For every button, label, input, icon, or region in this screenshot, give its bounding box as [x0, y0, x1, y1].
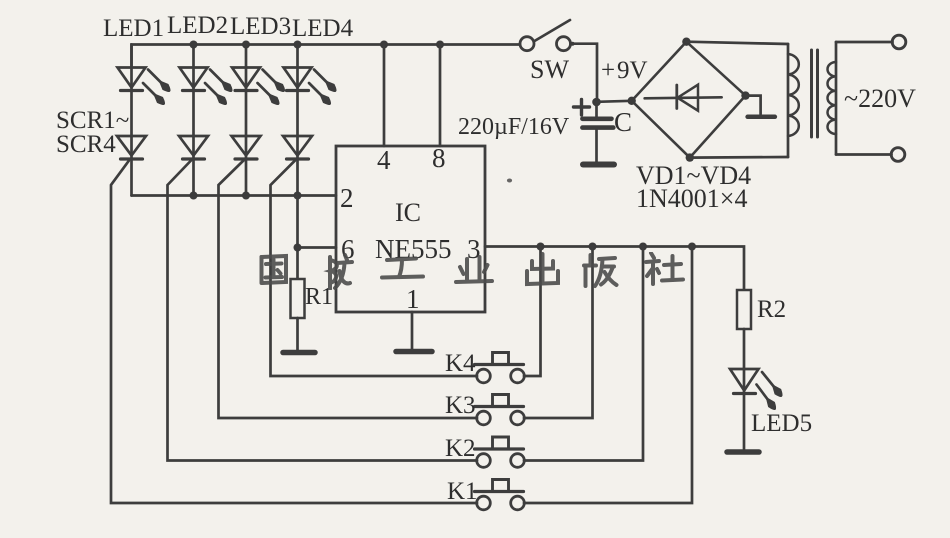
svg-text:LED1: LED1 [103, 15, 164, 42]
node junction pin6 R1 [294, 244, 302, 252]
node junction SCR2 cathode [190, 192, 198, 200]
node junction K2 pin3 [639, 243, 647, 251]
LED LED4 [284, 45, 336, 160]
ground LED5 [727, 449, 759, 455]
wire pin 4 [383, 45, 386, 147]
wire SCR cathode rail to pin 2 [132, 194, 337, 197]
wire K4 to pin3 rail [524, 247, 541, 377]
node junction SCR3 cathode [242, 192, 250, 200]
ground capacitor [583, 162, 614, 168]
watermark char fang [330, 255, 352, 289]
thyristor SCR3 [232, 136, 261, 196]
svg-text:LED5: LED5 [751, 410, 812, 437]
watermark char ban [584, 255, 617, 286]
svg-text:9V: 9V [617, 57, 648, 84]
watermark char gong [382, 259, 423, 278]
watermark char ye [456, 257, 492, 282]
node junction K1 pin3 [688, 243, 696, 251]
wire node to bridge [597, 101, 632, 102]
svg-text:+: + [601, 57, 615, 84]
resistor R1 [291, 196, 305, 351]
ground pin 1 [396, 349, 432, 355]
pushbutton K1 [475, 480, 525, 510]
wire K2 to pin3 rail [524, 247, 643, 461]
thyristor SCR2 [179, 136, 208, 196]
node junction SCR4 cathode [294, 192, 302, 200]
svg-text:K1: K1 [447, 478, 478, 505]
svg-text:1N4001×4: 1N4001×4 [636, 184, 747, 213]
wire SW to node [571, 44, 598, 102]
wire bridge to transformer bottom [690, 156, 788, 159]
LED LED1 [118, 45, 170, 160]
node junction bridge right [741, 91, 749, 99]
speck artifact [507, 179, 512, 183]
ground bridge [748, 115, 775, 120]
capacitor C 220uF [574, 100, 614, 162]
svg-text:R2: R2 [757, 296, 786, 323]
node junction LED4 top [294, 41, 302, 49]
node junction pin8 top [436, 41, 444, 49]
svg-text:SCR4: SCR4 [56, 131, 116, 158]
svg-text:LED2: LED2 [167, 12, 228, 39]
thyristor SCR1 [117, 136, 146, 196]
thyristor SCR4 [283, 136, 312, 196]
node junction LED3 top [242, 41, 250, 49]
pushbutton K2 [475, 437, 525, 467]
wire bridge to transformer top [686, 42, 788, 44]
wire SCR4 gate to K4 [271, 161, 478, 377]
svg-text:2: 2 [340, 183, 354, 213]
svg-text:220µF/16V: 220µF/16V [458, 114, 570, 140]
wire bridge right to ground [746, 96, 761, 114]
node junction SW contact [571, 42, 575, 46]
svg-text:K2: K2 [445, 435, 476, 462]
svg-text:~220V: ~220V [844, 84, 916, 113]
wire top +9V rail [132, 45, 521, 68]
svg-text:4: 4 [377, 145, 391, 175]
wire SCR2 gate to K2 [168, 161, 478, 461]
svg-text:SCR1~: SCR1~ [56, 107, 129, 134]
svg-text:K3: K3 [445, 392, 476, 419]
node junction K4 pin3 [537, 243, 545, 251]
bridge rectifier VD1-VD4 [632, 42, 746, 158]
wire pin 6 [298, 246, 337, 249]
wire SCR3 gate to K3 [219, 161, 478, 419]
LED LED5 [730, 369, 781, 409]
IC NE555 [336, 146, 485, 312]
watermark char guo [262, 256, 287, 283]
LED LED2 [180, 45, 232, 160]
watermark char she [646, 253, 683, 284]
switch SW [520, 20, 571, 51]
LED LED3 [232, 45, 284, 160]
node junction K3 pin3 [589, 243, 597, 251]
svg-text:LED3: LED3 [230, 13, 291, 40]
svg-text:SW: SW [530, 55, 569, 84]
wire pin 1 [411, 312, 414, 349]
svg-text:C: C [614, 107, 632, 137]
transformer T1 [788, 42, 893, 157]
WATERMARK [262, 253, 684, 289]
terminal 220V top [892, 35, 906, 49]
terminal 220V bottom [891, 148, 905, 162]
pushbutton K3 [475, 395, 525, 425]
svg-text:LED4: LED4 [292, 15, 354, 42]
wire SCR1 gate to K1 [111, 161, 477, 504]
svg-text:1: 1 [406, 284, 420, 314]
node junction LED2 top [190, 41, 198, 49]
resistor R2 [737, 290, 751, 449]
wire K1 to pin3 rail [524, 247, 692, 504]
node junction bridge top [682, 38, 690, 46]
node junction bridge bottom [686, 153, 694, 161]
svg-text:8: 8 [432, 143, 446, 173]
pushbutton K4 [475, 353, 525, 383]
svg-text:IC: IC [395, 198, 421, 227]
watermark char chu [527, 254, 558, 284]
wire pin 3 rail [485, 247, 744, 291]
svg-text:K4: K4 [445, 350, 476, 377]
node junction +9V [592, 98, 601, 107]
wire K3 to pin3 rail [524, 247, 593, 419]
node junction bridge left [628, 97, 636, 105]
wire pin 8 [439, 45, 442, 147]
node junction pin4 top [380, 41, 388, 49]
ground R1 [283, 350, 315, 356]
